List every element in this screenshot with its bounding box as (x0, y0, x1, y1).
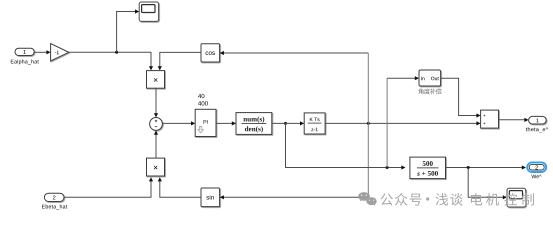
wire adder to output port theta (499, 118, 529, 122)
value label 40 400 (198, 94, 204, 98)
adder block (481, 110, 499, 128)
output port 2 We selected highlight (527, 162, 546, 172)
wire sin output to bottom multiply input2 (158, 177, 201, 197)
sin block (201, 188, 220, 207)
adder plus marks (484, 115, 486, 125)
PI block gray arrow badge (198, 126, 204, 133)
label Ealpha_hat (11, 60, 39, 65)
sum plus sign (155, 120, 157, 122)
wire port2 to bottom multiply input1 (64, 177, 153, 197)
wire filter to output port We (446, 165, 527, 169)
junction node theta feedback (367, 122, 370, 125)
wire transfer fcn to discrete integrator (272, 121, 304, 125)
wire Out to adder input1 (441, 78, 481, 117)
scope block bottom right (507, 188, 526, 207)
cos block (201, 44, 220, 62)
wire bottom multiply output to sum minus input (154, 131, 158, 159)
wire PI to transfer fcn (216, 121, 236, 125)
transfer function num(s)/den(s) (236, 113, 272, 135)
junction node on gain output (115, 51, 118, 54)
wire We junction down to scope2 (468, 168, 507, 200)
watermark text (381, 193, 534, 206)
wire top multiply output to sum plus input (154, 88, 158, 117)
wire cos output to top multiply input2 (158, 52, 201, 70)
PI controller block (195, 109, 216, 136)
junction node speed signal (284, 122, 287, 125)
wire feedback theta to cos input (220, 51, 369, 55)
output port 1 theta_e (529, 116, 547, 124)
subsystem In Out angle compensation (419, 70, 441, 86)
label We (531, 175, 541, 179)
label angle compensation (418, 88, 441, 94)
sum minus sign (155, 126, 157, 128)
input port 1 Ealpha_hat (15, 48, 34, 55)
junction node We to scope2 (467, 166, 470, 169)
label theta_e (526, 127, 548, 132)
wire port1 to gain (34, 50, 50, 54)
wire speed tap down from transfer fcn output (286, 123, 402, 167)
discrete integrator K Ts / z-1 (304, 113, 325, 134)
watermark wechat logo (358, 192, 377, 206)
input port 2 Ebeta_hat (44, 193, 64, 201)
low pass filter 500/(s+500) (410, 157, 446, 179)
wire speed up to In block (387, 76, 419, 167)
wire sum output to PI (162, 121, 195, 125)
sum block (150, 118, 163, 131)
gain -1 (51, 44, 69, 61)
wire integrator output to adder input2 (325, 121, 481, 125)
label Ebeta_hat (42, 205, 67, 210)
wire feedback theta to sin input (220, 195, 369, 199)
wire junction to scope (117, 9, 140, 52)
junction node speed to compensation (386, 166, 389, 169)
scope block top (139, 2, 158, 21)
wire theta feedback vertical (367, 53, 369, 197)
multiply block top (147, 71, 165, 89)
wire gain output to top multiply input1 (69, 52, 153, 70)
multiply block bottom (147, 158, 165, 176)
